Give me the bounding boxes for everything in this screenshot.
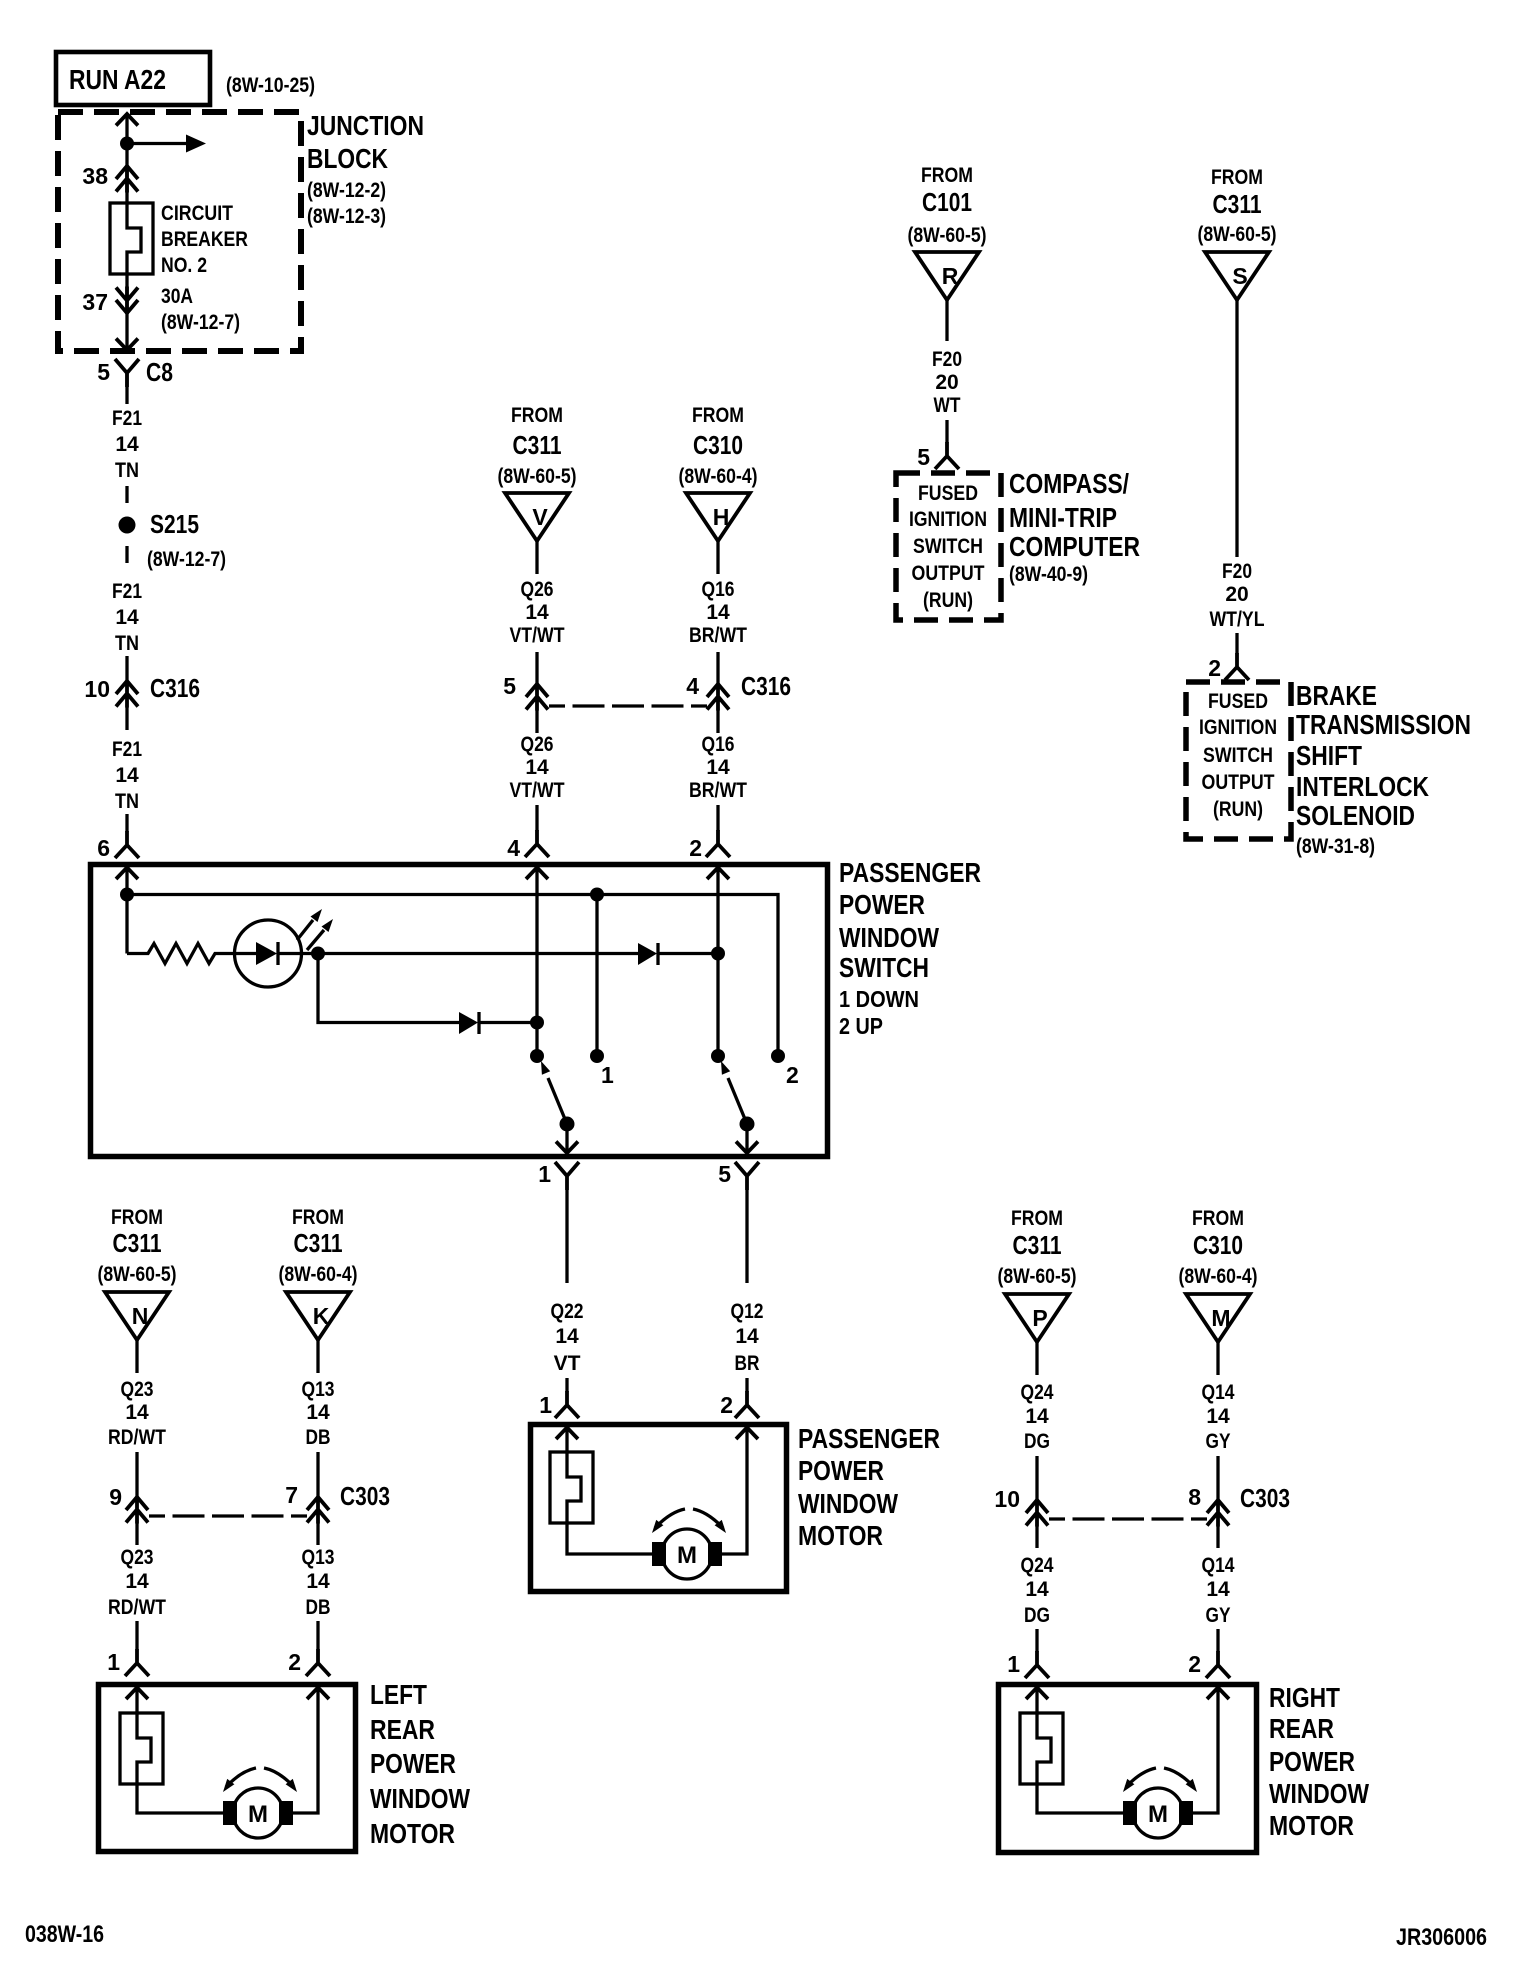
svg-text:14: 14 [525,601,549,624]
circuit breaker No.2 [110,203,153,274]
svg-text:DB: DB [306,1596,331,1619]
svg-text:RD/WT: RD/WT [108,1596,166,1619]
node after LED [311,947,325,961]
svg-text:14: 14 [735,1325,759,1348]
solenoid dashed enclosure [1186,682,1291,839]
svg-text:C311: C311 [1213,189,1262,219]
LED emission arrows [297,909,333,950]
svg-text:SWITCH: SWITCH [839,952,929,983]
dashed connector tie C303 (left) [149,1514,307,1517]
svg-text:Q23: Q23 [121,1546,154,1569]
svg-text:SWITCH: SWITCH [1203,744,1273,767]
LED circle [235,920,302,987]
svg-text:(8W-60-5): (8W-60-5) [1198,223,1277,246]
junction block label [307,110,424,228]
fuse box RUN A22 [56,52,210,105]
right rear power window motor enclosure [999,1685,1257,1853]
arrow down exiting junction block [116,339,138,351]
connector C303 chevrons (pin 10) [1026,1499,1048,1527]
svg-text:WINDOW: WINDOW [798,1488,898,1519]
wire LED to node [302,952,319,955]
svg-text:S: S [1232,263,1247,289]
left motor circuit breaker [120,1713,163,1784]
left motor pin 2 fork [306,1649,330,1676]
svg-text:M: M [1148,1801,1168,1828]
svg-text:Q23: Q23 [121,1378,154,1401]
wire branch down from LED node [318,954,459,1023]
arrow down exit pin 5 [736,1142,758,1154]
switch pin 6 fork [115,831,139,858]
svg-text:BR: BR [735,1352,760,1375]
svg-text:OUTPUT: OUTPUT [1202,771,1275,794]
motor pin 1 fork [555,1391,579,1418]
wire below breaker [125,274,128,349]
svg-text:Q26: Q26 [521,733,554,756]
connector C8 fork [115,359,139,387]
svg-text:14: 14 [1206,1405,1230,1428]
connector pin 38 chevrons [116,165,138,193]
svg-text:BRAKE: BRAKE [1296,680,1377,711]
svg-text:14: 14 [115,433,139,456]
svg-text:C101: C101 [922,187,972,217]
svg-text:2 UP: 2 UP [839,1013,883,1039]
wire label Q13 14 DB (1) [302,1378,335,1449]
wire LED row to diode D2 [318,952,638,955]
wire into left motor pin 2 [316,1621,319,1650]
svg-text:1: 1 [1007,1651,1020,1677]
motor rotation arrows (passenger) [652,1509,726,1533]
svg-text:C311: C311 [113,1228,162,1258]
wire breaker to motor [567,1523,661,1554]
wire down to contact 1 [595,895,598,1057]
svg-text:C316: C316 [741,671,791,701]
svg-text:14: 14 [306,1401,330,1424]
svg-text:C310: C310 [693,430,743,460]
svg-text:038W-16: 038W-16 [25,1921,104,1948]
wire diode D1 to contact column 4 [478,1021,537,1024]
svg-text:FUSED: FUSED [918,482,978,505]
wire label Q22 14 VT [551,1300,584,1375]
motor circuit breaker [550,1452,593,1523]
left rear power window motor label [370,1679,470,1849]
wire below C303 pin 7 [316,1523,319,1545]
wire K triangle down [316,1340,319,1373]
motor rotation arrows (right rear) [1123,1768,1197,1792]
svg-text:(8W-60-4): (8W-60-4) [279,1263,358,1286]
svg-text:JR306006: JR306006 [1396,1924,1487,1951]
motor rotation arrows (left rear) [223,1768,297,1792]
svg-text:14: 14 [306,1570,330,1593]
arrow up inside pin 2 [707,868,729,880]
wire into right motor pin 1 [1035,1629,1038,1652]
svg-text:DG: DG [1024,1430,1050,1453]
svg-text:BLOCK: BLOCK [307,143,388,174]
right motor pin 2 fork [1206,1651,1230,1678]
wire into left motor pin 1 [135,1621,138,1650]
wire pin 4 column [535,868,538,1057]
svg-text:C316: C316 [150,673,200,703]
arrow down exit pin 1 [556,1142,578,1154]
wire label F21 14 TN (1) [112,407,142,482]
wire diode D2 to contact column 2 [657,952,718,955]
svg-text:JUNCTION: JUNCTION [307,110,424,141]
wire P triangle down [1035,1342,1038,1375]
svg-text:CIRCUIT: CIRCUIT [161,202,233,225]
svg-text:Q13: Q13 [302,1378,335,1401]
junction block dashed enclosure [58,112,301,351]
switch pivot 2 [740,1117,755,1132]
svg-text:DB: DB [306,1426,331,1449]
svg-text:(8W-12-7): (8W-12-7) [161,311,240,334]
wire to C303 pin 8 [1216,1456,1219,1499]
node on pin 2 column [711,947,725,961]
node H source label [679,404,758,488]
wire label Q24 14 DG (2) [1021,1554,1054,1627]
arrow up inside pin 6 [116,868,138,880]
svg-text:14: 14 [706,601,730,624]
svg-text:(8W-60-4): (8W-60-4) [1179,1265,1258,1288]
splice S215 [119,517,136,534]
svg-text:F20: F20 [1222,560,1252,583]
svg-text:TN: TN [115,790,139,813]
wire below C303 pin 8 [1216,1526,1219,1548]
svg-text:TN: TN [115,632,139,655]
svg-text:VT/WT: VT/WT [510,779,565,802]
switch pin 4 fork [525,830,549,857]
wire label Q23 14 RD/WT (2) [108,1546,166,1619]
svg-text:C310: C310 [1193,1230,1243,1260]
compass/mini-trip computer label [1009,468,1140,586]
svg-text:TN: TN [115,459,139,482]
svg-text:FROM: FROM [921,164,973,187]
wire left motor pin 1 to breaker [135,1688,138,1715]
wire into switch pin 2 [716,805,719,831]
svg-text:FROM: FROM [111,1206,163,1229]
svg-text:(8W-60-5): (8W-60-5) [908,224,987,247]
svg-text:REAR: REAR [370,1714,435,1745]
compass dashed enclosure [896,473,1001,620]
svg-text:(8W-60-5): (8W-60-5) [98,1263,177,1286]
wire into right motor pin 2 [1216,1629,1219,1652]
svg-text:Q24: Q24 [1021,1381,1054,1404]
svg-text:OUTPUT: OUTPUT [912,562,985,585]
wire label Q26 14 VT/WT (1) [510,578,565,647]
switch pin 2 fork [706,830,730,857]
svg-text:(8W-31-8): (8W-31-8) [1296,835,1375,858]
svg-text:(8W-12-7): (8W-12-7) [147,548,226,571]
wire to C303 pin 9 [135,1452,138,1496]
svg-text:Q26: Q26 [521,578,554,601]
svg-text:30A: 30A [161,285,193,308]
node diode D1 junction [530,1016,544,1030]
node K source label [279,1206,358,1286]
circuit breaker label [161,202,248,334]
wire S long run [1235,300,1238,557]
svg-text:14: 14 [1025,1578,1049,1601]
svg-text:VT: VT [554,1352,581,1375]
dashed connector tie C316 [549,704,707,707]
arrow up inside left motor pin 2 [307,1688,329,1700]
svg-text:COMPUTER: COMPUTER [1009,531,1140,562]
svg-text:2: 2 [786,1062,799,1088]
svg-text:VT/WT: VT/WT [510,624,565,647]
connector C303 chevrons (pin 9) [126,1496,148,1524]
node R source label [908,164,987,247]
svg-text:N: N [132,1303,149,1329]
wire label Q13 14 DB (2) [302,1546,335,1619]
wire into solenoid pin 2 [1235,633,1238,654]
wire switch pin 5 down [745,1190,748,1283]
node V source label [498,404,577,488]
svg-text:20: 20 [1225,583,1248,606]
left rear power window motor enclosure [99,1685,356,1852]
svg-text:RIGHT: RIGHT [1269,1682,1340,1713]
connector triangle P [1005,1294,1069,1342]
svg-text:1 DOWN: 1 DOWN [839,986,919,1012]
svg-text:Q22: Q22 [551,1300,584,1323]
svg-text:(RUN): (RUN) [923,589,973,612]
right motor circuit breaker [1020,1713,1063,1784]
wire pivot 2 down [745,1124,748,1152]
wire into switch pin 4 [535,805,538,831]
wire right motor pin 1 to breaker [1035,1688,1038,1715]
resistor R [127,944,235,964]
wire below C316 pin 5 [535,710,538,733]
contact dot column 4 [530,1049,544,1063]
svg-text:Q16: Q16 [702,733,735,756]
svg-text:POWER: POWER [1269,1746,1355,1777]
wire A22 feed into junction block [125,114,128,204]
svg-text:MINI-TRIP: MINI-TRIP [1009,502,1117,533]
brake transmission shift interlock solenoid label [1296,680,1471,858]
svg-text:Q14: Q14 [1202,1554,1235,1577]
svg-text:14: 14 [555,1325,579,1348]
supply bus wire across switch [127,895,778,1057]
svg-text:GY: GY [1206,1604,1231,1627]
svg-text:LEFT: LEFT [370,1679,427,1710]
wire to C303 pin 7 [316,1452,319,1496]
svg-text:FROM: FROM [1011,1207,1063,1230]
svg-text:5: 5 [718,1161,731,1187]
svg-text:BREAKER: BREAKER [161,228,248,251]
connector C316 chevrons (pin 5) [526,683,548,711]
contact dot pin 2 column [711,1049,725,1063]
wire label Q23 14 RD/WT (1) [108,1378,166,1449]
wire label F21 14 TN (3) [112,738,142,813]
connector triangle V [505,493,569,541]
svg-text:F21: F21 [112,580,142,603]
wire pin 2 column [716,868,719,1057]
contact dot column 1 [590,1049,604,1063]
svg-text:5: 5 [503,673,516,699]
wire label Q14 14 GY (1) [1202,1381,1235,1453]
svg-text:NO. 2: NO. 2 [161,254,207,277]
svg-text:Q12: Q12 [731,1300,764,1323]
wire breaker to left motor [137,1784,232,1813]
wire below C303 pin 9 [135,1523,138,1545]
svg-text:COMPASS/: COMPASS/ [1009,468,1129,499]
svg-text:10: 10 [84,676,110,702]
svg-text:14: 14 [706,756,730,779]
wire C8 to label F21 [125,373,128,404]
wire motor pin 2 to motor [713,1428,747,1555]
branch arrow to other circuits [127,135,206,153]
svg-text:FUSED: FUSED [1208,690,1268,713]
dashed connector tie C303 (right) [1049,1517,1207,1520]
left motor pin 1 fork [125,1649,149,1676]
svg-text:GY: GY [1206,1430,1231,1453]
wire R triangle down [945,300,948,341]
svg-text:BR/WT: BR/WT [689,779,747,802]
svg-text:Q16: Q16 [702,578,735,601]
switch blade 2 [721,1061,747,1124]
arrow up toward RUN A22 [116,114,138,126]
svg-text:4: 4 [686,673,699,699]
svg-text:RUN A22: RUN A22 [69,64,166,95]
svg-text:14: 14 [115,764,139,787]
connector C303 chevrons (pin 8) [1207,1499,1229,1527]
svg-text:F21: F21 [112,407,142,430]
motor M (right rear) [1123,1788,1193,1838]
wire into switch pin 6 [125,814,128,832]
node S on A22 feed [120,137,134,151]
wire label Q14 14 GY (2) [1202,1554,1235,1627]
wire label Q12 14 BR [731,1300,764,1375]
wire right motor pin 2 to motor [1184,1688,1218,1814]
wire to C303 pin 10 [1035,1456,1038,1499]
svg-text:1: 1 [107,1649,120,1675]
connector C303 chevrons (pin 7) [307,1496,329,1524]
node junction to contact 1 column [590,888,604,902]
svg-text:MOTOR: MOTOR [798,1520,883,1551]
svg-text:2: 2 [288,1649,301,1675]
wire V triangle down [535,541,538,574]
svg-text:K: K [313,1303,330,1329]
diode D2 [638,943,658,965]
fused ignition switch output text (solenoid) [1199,690,1277,821]
svg-text:BR/WT: BR/WT [689,624,747,647]
connector triangle N [105,1292,169,1340]
switch pin 5 fork [735,1162,759,1190]
svg-text:SWITCH: SWITCH [913,535,983,558]
svg-text:10: 10 [994,1486,1020,1512]
svg-text:F21: F21 [112,738,142,761]
connector triangle M [1186,1294,1250,1342]
svg-text:IGNITION: IGNITION [1199,716,1277,739]
svg-text:MOTOR: MOTOR [370,1818,455,1849]
motor M (passenger) [652,1529,722,1579]
passenger power window motor enclosure [531,1425,787,1592]
arrow up inside right motor pin 1 [1026,1688,1048,1700]
svg-text:7: 7 [285,1482,298,1508]
svg-text:C8: C8 [146,357,173,387]
svg-text:(8W-40-9): (8W-40-9) [1009,563,1088,586]
wire to C316 pin 4 [716,652,719,683]
svg-text:WT: WT [934,394,961,417]
right rear power window motor label [1269,1682,1369,1841]
wire to C316 [125,656,128,680]
arrow up inside pin 4 [526,868,548,880]
svg-text:WINDOW: WINDOW [839,922,939,953]
wire segment below splice [125,546,128,563]
svg-text:MOTOR: MOTOR [1269,1810,1354,1841]
svg-text:INTERLOCK: INTERLOCK [1296,771,1429,802]
wire below C316 [125,707,128,730]
arrow up inside motor pin 1 [556,1428,578,1440]
switch blade 1 [541,1061,567,1124]
motor M (left rear) [223,1788,293,1838]
wire into motor pin 1 [565,1378,568,1392]
svg-text:REAR: REAR [1269,1713,1334,1744]
wire label F20 20 WT [932,348,962,417]
svg-text:R: R [942,263,959,289]
contact dot column 2 [771,1049,785,1063]
svg-text:FROM: FROM [1211,166,1263,189]
LED diode symbol [235,942,302,965]
svg-text:(RUN): (RUN) [1213,798,1263,821]
svg-text:(8W-12-2): (8W-12-2) [307,179,386,202]
wire label Q24 14 DG (1) [1021,1381,1054,1453]
svg-text:M: M [248,1801,268,1828]
svg-text:14: 14 [525,756,549,779]
wire H triangle down [716,541,719,574]
node N source label [98,1206,177,1286]
wire pivot 1 down [565,1124,568,1152]
svg-text:C311: C311 [1013,1230,1062,1260]
svg-text:2: 2 [720,1392,733,1418]
wire label F21 14 TN (2) [112,580,142,655]
svg-text:M: M [1211,1305,1230,1331]
wire label Q16 14 BR/WT (1) [689,578,747,647]
svg-text:F20: F20 [932,348,962,371]
svg-text:C303: C303 [1240,1483,1290,1513]
wire label Q26 14 VT/WT (2) [510,733,565,802]
wire to C316 pin 5 [535,652,538,683]
svg-text:SOLENOID: SOLENOID [1296,800,1415,831]
passenger power window switch enclosure [91,865,828,1157]
svg-text:POWER: POWER [798,1455,884,1486]
passenger power window motor label [798,1423,940,1551]
svg-text:5: 5 [97,359,110,385]
connector triangle H [686,493,750,541]
wire into motor pin 2 [745,1378,748,1392]
svg-text:WT/YL: WT/YL [1210,608,1265,631]
arrow up inside left motor pin 1 [126,1688,148,1700]
svg-text:14: 14 [115,606,139,629]
wire below C303 pin 10 [1035,1526,1038,1548]
svg-text:8: 8 [1188,1484,1201,1510]
svg-text:(8W-12-3): (8W-12-3) [307,205,386,228]
svg-text:(8W-10-25): (8W-10-25) [226,74,315,97]
svg-text:FROM: FROM [1192,1207,1244,1230]
arrow up inside motor pin 2 [736,1428,758,1440]
node P source label [998,1207,1077,1288]
svg-text:WINDOW: WINDOW [1269,1778,1369,1809]
svg-text:14: 14 [1206,1578,1230,1601]
svg-text:POWER: POWER [370,1748,456,1779]
compass pin 5 fork [935,442,959,469]
svg-text:Q14: Q14 [1202,1381,1235,1404]
wire breaker to right motor [1037,1784,1132,1813]
svg-text:2: 2 [689,835,702,861]
svg-text:2: 2 [1208,655,1221,681]
right motor pin 1 fork [1025,1651,1049,1678]
arrow up inside right motor pin 2 [1207,1688,1229,1700]
wire below C316 pin 4 [716,710,719,733]
svg-text:S215: S215 [150,509,199,539]
diode D1 [459,1012,479,1034]
svg-text:P: P [1032,1305,1047,1331]
